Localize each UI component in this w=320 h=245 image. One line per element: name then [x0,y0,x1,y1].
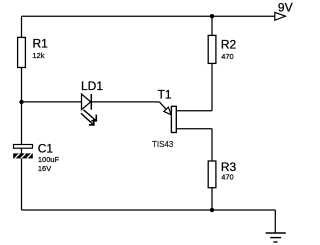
resistor R2 [208,35,236,63]
ground [266,233,286,242]
wire bottom rail [22,209,276,211]
resistor R3 [208,160,236,188]
junction dot left (R1/C1/LED node) [19,100,23,104]
svg-text:470: 470 [221,173,234,182]
wire LED row horizontal [22,101,160,103]
svg-text:12k: 12k [32,51,44,60]
svg-text:R1: R1 [33,37,49,51]
wire T1 base2 top lead [176,110,212,112]
power symbol 9V arrow [275,1,293,21]
svg-text:R2: R2 [221,38,237,52]
transistor T1 (UJT TIS43) [152,87,176,149]
wire right branch upper vertical (to R2) [211,16,213,111]
capacitor C1 [13,141,59,173]
svg-text:470: 470 [221,52,234,61]
wire T1 base1 bottom lead [176,128,212,130]
svg-text:TIS43: TIS43 [152,140,174,149]
svg-text:100uF: 100uF [38,155,60,164]
wire right branch lower vertical (to R3) [211,129,213,210]
junction dot top rail (R2 node) [210,14,214,18]
wire left branch vertical [21,16,23,210]
svg-text:C1: C1 [38,141,54,155]
LED LD1 [81,79,103,125]
svg-text:T1: T1 [158,87,172,101]
wire ground stub [274,210,276,233]
junction dot bottom rail (R3 node) [210,208,214,212]
svg-text:9V: 9V [278,1,293,15]
svg-text:LD1: LD1 [81,79,103,93]
resistor R1 [18,37,49,68]
wire top rail [22,15,275,17]
svg-text:16V: 16V [38,164,51,173]
